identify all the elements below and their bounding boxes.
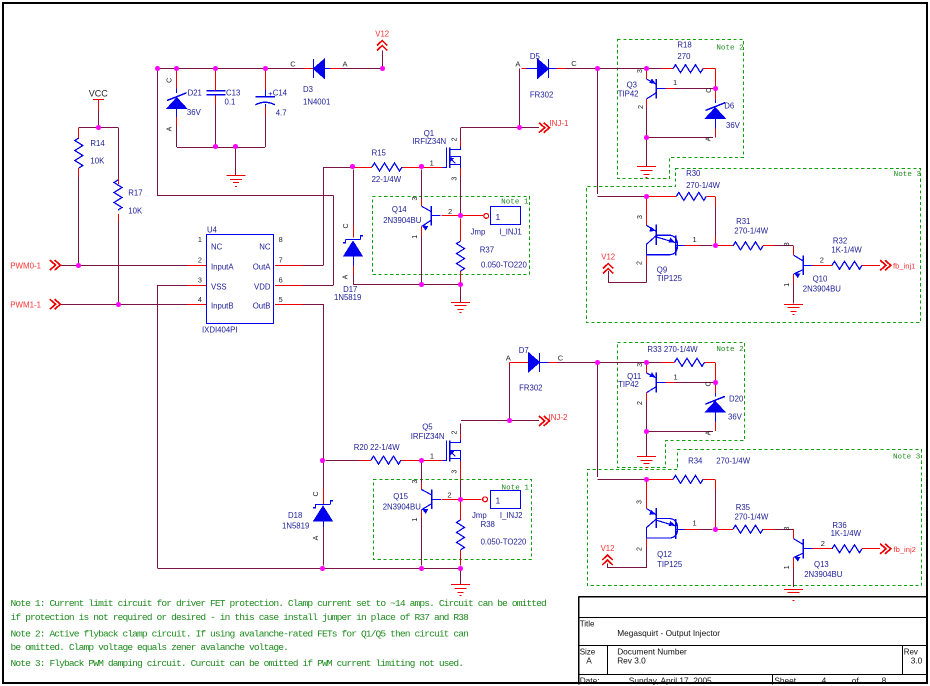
svg-text:A: A — [342, 60, 347, 69]
svg-text:8: 8 — [279, 235, 283, 244]
svg-text:C: C — [343, 223, 350, 228]
svg-text:IRFIZ34N: IRFIZ34N — [411, 432, 445, 441]
svg-text:Date:: Date: — [580, 675, 600, 685]
svg-text:R17: R17 — [128, 188, 142, 197]
svg-text:2: 2 — [637, 547, 644, 551]
svg-text:C: C — [706, 381, 713, 386]
svg-text:0.1: 0.1 — [225, 97, 236, 106]
svg-text:D7: D7 — [519, 346, 529, 355]
svg-text:IRFIZ34N: IRFIZ34N — [412, 137, 446, 146]
svg-text:D18: D18 — [288, 511, 302, 520]
svg-text:C: C — [313, 491, 320, 496]
svg-text:1: 1 — [784, 565, 791, 569]
svg-text:Note 1: Note 1 — [502, 485, 530, 493]
svg-text:1N5819: 1N5819 — [282, 522, 309, 531]
svg-text:3: 3 — [637, 500, 644, 504]
svg-text:3: 3 — [637, 69, 644, 73]
svg-text:TIP125: TIP125 — [657, 274, 683, 283]
svg-text:V12: V12 — [601, 544, 615, 553]
svg-text:Q15: Q15 — [393, 492, 408, 501]
svg-text:R14: R14 — [90, 139, 105, 148]
svg-text:R35: R35 — [736, 503, 751, 512]
svg-text:PWM0-1: PWM0-1 — [10, 261, 41, 270]
svg-text:A: A — [167, 126, 174, 131]
svg-text:Note 3: Note 3 — [894, 171, 922, 179]
svg-text:270-1/4W: 270-1/4W — [716, 456, 750, 465]
svg-text:1: 1 — [412, 235, 419, 239]
svg-text:Q12: Q12 — [657, 550, 672, 559]
svg-text:A: A — [313, 535, 320, 540]
svg-text:C: C — [558, 354, 564, 363]
svg-text:3: 3 — [784, 526, 791, 530]
svg-text:270-1/4W: 270-1/4W — [686, 181, 720, 190]
svg-text:0.050-TO220: 0.050-TO220 — [481, 260, 527, 269]
svg-text:A: A — [706, 136, 713, 141]
svg-text:C: C — [290, 60, 296, 69]
svg-text:I_INJ1: I_INJ1 — [499, 227, 522, 236]
svg-text:A: A — [506, 353, 511, 362]
svg-text:1: 1 — [784, 283, 791, 287]
svg-text:2: 2 — [451, 430, 458, 434]
svg-text:8: 8 — [882, 675, 887, 685]
svg-text:D6: D6 — [724, 102, 734, 111]
svg-text:2: 2 — [637, 261, 644, 265]
svg-text:4.7: 4.7 — [276, 109, 287, 118]
svg-text:Note 1: Current limit circuit: Note 1: Current limit circuit for driver… — [11, 598, 547, 609]
svg-text:NC: NC — [211, 243, 223, 252]
svg-text:A: A — [586, 655, 592, 665]
svg-text:NC: NC — [259, 243, 271, 252]
svg-text:270-1/4W: 270-1/4W — [734, 226, 768, 235]
svg-text:Note 2: Note 2 — [716, 45, 744, 53]
svg-text:FR302: FR302 — [519, 384, 542, 393]
svg-text:3: 3 — [412, 479, 419, 483]
svg-text:D3: D3 — [303, 85, 313, 94]
svg-text:TIP42: TIP42 — [618, 89, 639, 98]
svg-text:36V: 36V — [187, 108, 202, 117]
svg-text:Jmp: Jmp — [472, 511, 487, 520]
svg-text:A: A — [343, 274, 350, 279]
svg-text:Title: Title — [580, 620, 595, 629]
svg-text:1K-1/4W: 1K-1/4W — [831, 245, 862, 254]
svg-text:InputA: InputA — [211, 262, 234, 271]
svg-text:2: 2 — [638, 105, 645, 109]
svg-text:A: A — [515, 60, 520, 69]
svg-text:3: 3 — [784, 242, 791, 246]
svg-text:PWM1-1: PWM1-1 — [10, 300, 41, 309]
svg-text:FR302: FR302 — [530, 91, 553, 100]
svg-text:Sunday, April 17, 2005: Sunday, April 17, 2005 — [629, 675, 712, 685]
svg-text:10K: 10K — [128, 206, 143, 215]
svg-text:fb_inj1: fb_inj1 — [893, 261, 915, 270]
svg-text:1: 1 — [412, 517, 419, 521]
svg-text:V12: V12 — [375, 30, 389, 39]
svg-text:Megasquirt - Output Injector: Megasquirt - Output Injector — [617, 628, 720, 638]
svg-text:Note 3: Note 3 — [893, 454, 921, 462]
svg-text:2N3904BU: 2N3904BU — [803, 284, 842, 293]
svg-text:270: 270 — [677, 52, 691, 61]
svg-text:INJ-1: INJ-1 — [549, 119, 569, 128]
svg-text:R30: R30 — [686, 169, 701, 178]
svg-text:VDD: VDD — [254, 282, 271, 291]
svg-text:5: 5 — [279, 295, 283, 304]
svg-text:R20 22-1/4W: R20 22-1/4W — [354, 443, 401, 452]
svg-text:TIP42: TIP42 — [618, 380, 639, 389]
svg-text:2: 2 — [447, 491, 451, 500]
svg-text:36V: 36V — [726, 121, 741, 130]
svg-text:R15: R15 — [372, 148, 387, 157]
svg-text:Q5: Q5 — [422, 423, 433, 432]
svg-text:OutA: OutA — [253, 262, 272, 271]
svg-text:1: 1 — [430, 452, 434, 461]
svg-text:be omitted. Clamp voltage equa: be omitted. Clamp voltage equals zener a… — [11, 642, 288, 653]
svg-text:1N5819: 1N5819 — [334, 293, 361, 302]
svg-text:R38: R38 — [481, 520, 495, 529]
svg-text:3.0: 3.0 — [911, 656, 923, 666]
svg-text:R37: R37 — [480, 246, 494, 255]
svg-text:InputB: InputB — [211, 302, 234, 311]
svg-text:Q3: Q3 — [627, 80, 637, 89]
svg-text:R33 270-1/4W: R33 270-1/4W — [647, 345, 698, 354]
svg-text:1: 1 — [430, 159, 434, 168]
svg-text:R18: R18 — [677, 41, 691, 50]
svg-text:3: 3 — [637, 363, 644, 367]
svg-text:3: 3 — [451, 177, 458, 181]
svg-text:if protection is not required: if protection is not required or desired… — [11, 612, 470, 623]
svg-text:7: 7 — [279, 256, 283, 265]
svg-text:C13: C13 — [226, 88, 240, 97]
svg-text:Note 2: Note 2 — [716, 346, 744, 354]
svg-text:D21: D21 — [188, 88, 202, 97]
svg-text:OutB: OutB — [253, 302, 271, 311]
svg-text:1: 1 — [496, 496, 501, 506]
svg-text:Note 3: Flyback PWM damping ci: Note 3: Flyback PWM damping circuit. Cur… — [11, 658, 464, 669]
svg-text:1K-1/4W: 1K-1/4W — [831, 529, 862, 538]
svg-text:C: C — [706, 88, 713, 93]
svg-text:D5: D5 — [530, 52, 541, 61]
svg-text:1: 1 — [674, 373, 678, 382]
svg-text:Q13: Q13 — [814, 560, 829, 569]
svg-text:22-1/4W: 22-1/4W — [372, 175, 402, 184]
svg-text:3: 3 — [637, 215, 644, 219]
svg-text:IXDI404PI: IXDI404PI — [202, 326, 238, 335]
svg-text:270-1/4W: 270-1/4W — [735, 512, 769, 521]
svg-text:2: 2 — [637, 401, 644, 405]
svg-text:36V: 36V — [728, 412, 743, 421]
svg-text:Rev 3.0: Rev 3.0 — [617, 656, 646, 666]
svg-text:4: 4 — [198, 295, 202, 304]
svg-text:3: 3 — [412, 196, 419, 200]
svg-text:1N4001: 1N4001 — [303, 97, 330, 106]
svg-text:VSS: VSS — [211, 282, 227, 291]
svg-text:2: 2 — [451, 137, 458, 141]
svg-text:Q10: Q10 — [813, 275, 828, 284]
svg-text:of: of — [852, 675, 860, 685]
svg-text:V12: V12 — [601, 253, 615, 262]
svg-text:VCC: VCC — [89, 89, 109, 99]
svg-text:2: 2 — [820, 256, 824, 265]
svg-text:4: 4 — [822, 675, 827, 685]
svg-text:2: 2 — [198, 256, 202, 265]
svg-text:I_INJ2: I_INJ2 — [500, 511, 523, 520]
svg-text:2N3904BU: 2N3904BU — [804, 570, 843, 579]
svg-text:3: 3 — [198, 275, 202, 284]
svg-text:C: C — [167, 78, 174, 83]
svg-text:D20: D20 — [729, 395, 744, 404]
svg-text:2N3904BU: 2N3904BU — [383, 502, 422, 511]
svg-text:A: A — [705, 430, 712, 435]
svg-text:U4: U4 — [207, 226, 218, 235]
svg-text:R31: R31 — [736, 217, 750, 226]
svg-text:1: 1 — [693, 235, 697, 244]
svg-text:6: 6 — [279, 275, 283, 284]
svg-text:C: C — [571, 59, 577, 68]
svg-text:1: 1 — [673, 78, 677, 87]
svg-text:10K: 10K — [90, 157, 105, 166]
svg-text:Note 2: Active flyback clamp c: Note 2: Active flyback clamp circuit. If… — [11, 628, 469, 639]
svg-text:INJ-2: INJ-2 — [548, 413, 568, 422]
svg-text:Sheet: Sheet — [774, 675, 796, 685]
svg-text:TIP125: TIP125 — [657, 560, 683, 569]
svg-text:Q14: Q14 — [392, 205, 407, 214]
svg-text:1: 1 — [198, 235, 202, 244]
svg-text:C14: C14 — [273, 88, 288, 97]
svg-text:3: 3 — [451, 470, 458, 474]
svg-text:1: 1 — [496, 212, 501, 222]
svg-text:1: 1 — [693, 519, 697, 528]
svg-text:R34: R34 — [688, 456, 703, 465]
svg-text:2: 2 — [821, 539, 825, 548]
svg-text:fb_inj2: fb_inj2 — [894, 545, 916, 554]
svg-text:Q9: Q9 — [657, 265, 667, 274]
svg-text:0.050-TO220: 0.050-TO220 — [481, 537, 527, 546]
svg-text:2: 2 — [448, 207, 452, 216]
svg-text:2N3904BU: 2N3904BU — [383, 216, 422, 225]
svg-text:Jmp: Jmp — [471, 227, 486, 236]
svg-text:Note 1: Note 1 — [501, 199, 529, 207]
